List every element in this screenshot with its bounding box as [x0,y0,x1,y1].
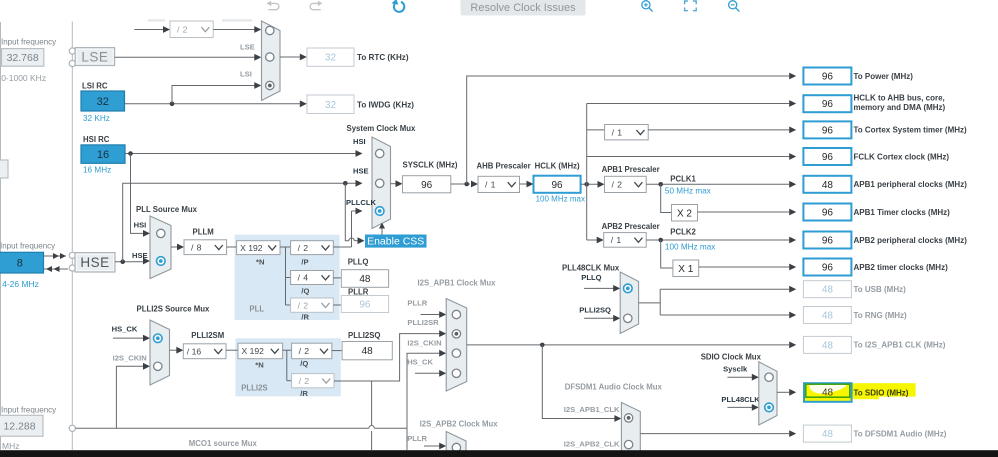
svg-text:MCO1 source Mux: MCO1 source Mux [189,439,258,448]
svg-text:HSE: HSE [80,255,109,270]
PLL shaded region [235,235,340,320]
svg-text:96: 96 [421,180,433,191]
port circle I2S_CKIN [69,425,75,431]
svg-text:/P: /P [301,258,308,267]
wire LSI branch to RTC mux [172,86,255,104]
svg-text:PLLI2S Source Mux: PLLI2S Source Mux [137,305,210,314]
output box APB1 peripheral clocks (MHz) = 48 [803,176,851,193]
svg-text:memory and DMA (MHz): memory and DMA (MHz) [854,103,946,112]
svg-text:To RNG (MHz): To RNG (MHz) [854,311,908,320]
toolbar undo icon [268,3,279,9]
PLL Source Mux radio HSE selected [157,257,166,266]
toolbar Resolve Clock Issues button [461,0,586,16]
wire MCO1 feed down [371,381,373,426]
PLLI2SQ value box 48 [342,342,392,360]
wire DFSDM1 mux output [640,433,789,435]
svg-text:16: 16 [97,149,109,161]
System Clock Mux radio HSE [376,179,384,187]
svg-text:HSE: HSE [353,167,369,176]
svg-text:To RTC (KHz): To RTC (KHz) [357,53,409,62]
svg-text:16 MHz: 16 MHz [83,165,111,174]
svg-text:I2S_APB1 Clock Mux: I2S_APB1 Clock Mux [418,279,497,288]
toolbar zoom-in icon [642,1,650,9]
wire HSE branch up to System Clock Mux [123,183,356,261]
svg-text:*N: *N [256,258,264,267]
svg-text:LSI RC: LSI RC [82,82,108,91]
wire PLLI2SM to PLLI2SN [226,349,238,351]
output box To I2S_APB1 CLK (MHz) = 48 [803,336,851,353]
port circles at HSE [69,252,75,258]
System Clock Mux radio PLLCLK selected [375,207,384,216]
HSE bidirectional arrows [44,255,67,257]
To SDIO yellow highlight band [852,383,916,396]
wire /2 to RTC mux [213,29,255,31]
svg-text:48: 48 [362,346,374,357]
faint cut-off label HSE_RTC [148,19,165,21]
wire PLLR stub [421,314,440,316]
svg-text:/ 2: / 2 [298,300,309,310]
svg-text:/ 2: / 2 [299,346,310,356]
svg-text:PLLI2SQ: PLLI2SQ [348,331,381,340]
toolbar refresh icon [394,2,404,12]
svg-text:4-26 MHz: 4-26 MHz [2,279,39,289]
wire PCLK2 branch to X1 [661,240,673,268]
wire AHB to HCLK box [520,183,528,185]
panel divider line [71,22,73,451]
bottom taskbar [0,450,998,457]
wire PCLK1 branch to X2 [661,184,672,212]
svg-text:/Q: /Q [301,287,309,296]
svg-text:HCLK (MHz): HCLK (MHz) [535,162,580,171]
svg-text:I2S_APB2 Clock Mux: I2S_APB2 Clock Mux [420,419,499,428]
svg-text:48: 48 [822,180,834,191]
svg-text:/ 2: / 2 [299,376,310,386]
PLLI2S internal branch [283,349,287,351]
wire HS_CK stub 2 [415,372,440,374]
svg-text:LSI: LSI [240,69,252,78]
svg-text:FCLK Cortex clock (MHz): FCLK Cortex clock (MHz) [854,152,950,161]
svg-text:32.768: 32.768 [7,52,39,64]
svg-text:I2S_CKIN: I2S_CKIN [113,354,147,363]
wire SDIO mux output [777,391,789,393]
output box APB1 Timer clocks (MHz) = 96 [803,204,851,221]
wire SYSCLK up to Power output [467,76,790,184]
SDIO mux radio PLL48CLK selected [765,403,774,412]
svg-text:96: 96 [822,125,834,136]
svg-text:PLLI2SQ: PLLI2SQ [579,306,611,315]
svg-text:System Clock Mux: System Clock Mux [347,124,417,133]
PLLI2SR dropdown /2 disabled [292,374,334,388]
input frequency box 12.288 [0,415,43,436]
svg-text:X 192: X 192 [240,243,263,253]
svg-text:8: 8 [17,258,23,270]
svg-text:50 MHz max: 50 MHz max [665,187,711,196]
wire into /2 RTC divider [134,29,164,31]
svg-text:To Cortex System timer (MHz): To Cortex System timer (MHz) [854,126,968,135]
svg-text:48: 48 [822,340,834,351]
output box To RNG (MHz) = 48 [803,307,851,324]
svg-text:Enable CSS: Enable CSS [367,236,424,248]
wire Cortex divider to output [648,129,789,131]
svg-text:PCLK2: PCLK2 [670,228,696,237]
svg-text:LSE: LSE [81,49,108,64]
svg-text:APB2 timer clocks (MHz): APB2 timer clocks (MHz) [854,263,949,272]
svg-text:96: 96 [822,236,834,247]
PLLR value box 96 disabled [341,296,388,313]
wire PLLR to box [333,304,341,306]
svg-text:PLL: PLL [249,305,264,314]
svg-text:LSE: LSE [240,42,255,51]
DFSDM1 mux radio I2S_APB1_CLK selected [624,414,632,422]
wire PLLI2SQ to box [332,350,342,352]
DFSDM1 mux radio I2S_APB2_CLK [624,440,632,448]
PLL Source Mux shape [150,216,171,279]
wire PLLQ stub [584,287,614,289]
svg-text:Resolve Clock Issues: Resolve Clock Issues [470,2,576,14]
svg-text:PLL48CLK: PLL48CLK [721,395,760,404]
output box To USB (MHz) = 48 [803,281,851,298]
svg-text:48: 48 [822,429,834,440]
svg-text:/ 1: / 1 [612,127,623,137]
X2 multiplier box [672,205,698,222]
AHB Prescaler dropdown /1 [478,176,520,192]
svg-text:PLLR: PLLR [407,434,427,443]
wire System Clock Mux to SYSCLK box [391,183,397,185]
wire I2S_APB1 down to DFSDM1 mux [542,345,615,419]
svg-text:HS_CK: HS_CK [407,358,433,367]
toolbar redo icon [310,3,321,9]
left panel edge line [0,22,2,450]
svg-text:HCLK to AHB bus, core,: HCLK to AHB bus, core, [854,94,945,103]
I2S_APB1 Clock Mux shape [446,299,467,392]
wire HSE output [115,261,144,263]
svg-text:HSI: HSI [353,137,366,146]
svg-text:/R: /R [301,313,309,322]
svg-text:32: 32 [97,96,109,108]
PLL48CLK Mux radio PLLI2SQ [624,314,632,322]
HCLK distribution vertical [586,104,588,241]
svg-text:/ 2: / 2 [298,243,309,253]
svg-text:To Power (MHz): To Power (MHz) [854,72,914,81]
svg-text:To SDIO (MHz): To SDIO (MHz) [854,388,909,397]
wire HS_CK stub [113,337,143,339]
svg-text:PLLI2S: PLLI2S [241,384,267,393]
wire to APB2 prescaler [587,239,598,241]
svg-text:*N: *N [255,361,263,370]
svg-text:32 KHz: 32 KHz [83,114,110,123]
Enable CSS button [365,235,427,248]
port circles at LSE [69,48,75,54]
svg-text:PLLM: PLLM [193,228,214,237]
System Clock Mux radio HSI [376,149,384,157]
PLLI2SN dropdown X192 [238,343,283,359]
I2S_APB1 mux radio PLLR [452,310,460,318]
wire HSI branch down to PLL mux [131,154,144,234]
svg-text:I2S_CKIN: I2S_CKIN [407,338,441,347]
svg-text:32: 32 [325,100,337,111]
input frequency box 32.768 [2,49,44,67]
PLLQ value box 48 [341,270,388,288]
svg-text:X 192: X 192 [242,346,265,356]
HSI RC box 16 [81,145,125,163]
PLLI2S mux radio I2S_CKIN [154,362,162,370]
output box To Cortex System timer (MHz) = 96 [803,121,851,138]
svg-text:48: 48 [822,388,834,399]
svg-text:APB1 peripheral clocks (MHz): APB1 peripheral clocks (MHz) [854,180,968,189]
RTC mux radio LSI selected [266,81,274,89]
svg-text:PLLCLK: PLLCLK [346,198,376,207]
RTC clock mux [262,21,281,101]
svg-text:96: 96 [822,263,834,274]
wire PLLCLK into mux [352,210,356,212]
wire PLL mux to PLLM [171,246,178,248]
svg-text:PLL48CLK Mux: PLL48CLK Mux [562,264,620,273]
wire to FCLK output [587,156,790,158]
wire HSE to Enable CSS (with hop) [345,183,349,240]
wire PLLI2SQ stub [584,317,614,319]
svg-text:PLLR: PLLR [407,299,427,308]
svg-text:32: 32 [325,53,337,64]
output box To Power (MHz) = 96 [803,68,851,85]
wire I2S_CKIN into PLLI2S mux [116,366,143,428]
svg-text:X 2: X 2 [677,208,692,219]
wire PLLQ to box [333,277,341,279]
left edge box fragment [0,160,8,178]
svg-text:PCLK1: PCLK1 [670,175,696,184]
APB2 Prescaler dropdown /1 [604,233,647,248]
wire Enable CSS to mux [381,227,383,235]
svg-text:To IWDG (KHz): To IWDG (KHz) [357,101,414,110]
output box To DFSDM1 Audio (MHz) = 48 [803,425,851,442]
svg-text:APB2 peripheral clocks (MHz): APB2 peripheral clocks (MHz) [854,236,968,245]
PLL48CLK Mux shape [620,272,638,334]
svg-text:APB1 Prescaler: APB1 Prescaler [602,165,660,174]
output box APB2 peripheral clocks (MHz) = 96 [803,232,851,249]
svg-text:Input frequency: Input frequency [1,406,56,415]
svg-text:PLL Source Mux: PLL Source Mux [136,205,198,214]
wire to HCLK AHB output [587,103,790,105]
PLLP dropdown /2 [291,241,334,255]
wire PLLM to PLLN [227,246,237,248]
To IWDG value box [307,95,354,114]
I2S_APB1 mux radio PLLI2SR selected [452,330,460,338]
wire I2S_CKIN riser [407,353,440,428]
wire PLLR stub (APB2) [424,445,440,447]
svg-text:PLLQ: PLLQ [348,258,369,267]
svg-text:Input frequency: Input frequency [1,38,56,47]
svg-text:PLLQ: PLLQ [581,273,601,282]
svg-text:HSE: HSE [132,251,148,260]
svg-text:/ 8: / 8 [191,242,202,252]
output box HCLK to AHB bus, core, = 96 [803,95,851,112]
svg-text:Sysclk: Sysclk [723,365,748,374]
I2S_APB2 mux radio PLLR (partial) [452,443,460,451]
DFSDM1 Audio Clock Mux shape (cut) [621,403,640,457]
PLLI2SM dropdown /16 [183,344,226,359]
PLL Source Mux radio HSI [157,229,165,237]
svg-text:/ 4: / 4 [298,273,309,283]
wire PLL48 mux output split [639,302,661,304]
wire X2 to APB1 timer output [698,211,790,213]
RTC mux radio LSE [266,53,274,61]
toolbar fit-to-screen icon [685,1,697,11]
Cortex timer dropdown /1 [605,125,649,140]
SDIO Clock Mux shape [759,362,777,425]
svg-text:/ 16: / 16 [187,346,202,356]
I2S_CKIN distribution wire [75,427,368,429]
svg-text:SYSCLK (MHz): SYSCLK (MHz) [403,161,458,170]
PLL internal branch [280,246,286,248]
svg-text:/ 1: / 1 [485,180,496,190]
wire PLL48CLK stub [727,406,752,408]
svg-text:X 1: X 1 [678,264,693,275]
svg-text:To DFSDM1 Audio (MHz): To DFSDM1 Audio (MHz) [854,429,947,438]
APB1 Prescaler dropdown /2 [605,176,647,192]
X1 multiplier box [673,260,699,277]
svg-text:96: 96 [822,72,834,83]
svg-text:HS_CK: HS_CK [112,325,138,334]
To SDIO output box 48 highlighted [804,383,852,402]
wire PLLI2S mux to PLLI2SM [170,349,177,351]
wire I2S_APB2_CLK stub [616,444,618,446]
wire HCLK output [581,183,598,185]
svg-text:100 MHz max: 100 MHz max [665,243,716,252]
svg-text:APB2 Prescaler: APB2 Prescaler [602,222,660,231]
svg-text:DFSDM1 Audio Clock Mux: DFSDM1 Audio Clock Mux [565,382,663,391]
wire X1 to APB2 timer output [699,266,790,268]
RTC mux radio HSE_RTC [266,26,274,34]
LSE oscillator box [75,48,114,66]
svg-text:I2S_APB1_CLK: I2S_APB1_CLK [564,405,620,414]
wire PLLI2SR to I2S APB1 mux [334,334,440,381]
wire PLLP to PLLCLK riser [333,246,351,248]
wire to Cortex divider [587,129,605,131]
I2S_APB1 mux radio HS_CK [452,369,460,377]
LSI RC box 32 [81,91,125,111]
svg-text:96: 96 [822,152,834,163]
svg-text:/ 2: / 2 [177,24,188,34]
PLLI2S mux radio HS_CK selected [154,334,163,343]
svg-text:/ 2: / 2 [612,180,623,190]
PLLI2S Source Mux shape [150,320,170,385]
PLL48CLK Mux radio PLLQ selected [624,284,633,293]
svg-text:96: 96 [822,208,834,219]
output box APB2 timer clocks (MHz) = 96 [803,259,851,276]
output box FCLK Cortex clock (MHz) = 96 [803,148,851,165]
toolbar zoom-out icon [729,1,737,9]
wire RTC mux to RTC box [280,56,300,58]
svg-text:PLLI2SM: PLLI2SM [191,331,224,340]
PLLQ dropdown /4 [291,271,334,285]
PLLI2S shaded region [235,338,340,396]
svg-text:48: 48 [359,274,371,285]
svg-text:96: 96 [551,180,563,191]
I2S_APB2 Clock Mux shape (cut) [446,432,466,457]
svg-text:/ 1: / 1 [611,235,622,245]
SYSCLK value box 96 [403,176,451,193]
PLLI2SQ dropdown /2 [292,343,332,359]
input frequency box 8 (HSE source) [0,252,44,273]
svg-text:Input frequency: Input frequency [0,241,55,250]
PLLR dropdown /2 disabled [291,298,334,312]
svg-text:PLLI2SR: PLLI2SR [407,318,439,327]
svg-text:To USB (MHz): To USB (MHz) [854,285,907,294]
To RTC value box [307,48,354,66]
wire Sysclk stub [727,376,752,378]
SDIO mux radio Sysclk [765,373,773,381]
wire I2S_APB1 mux output [467,344,790,346]
HCLK value box 96 [534,176,581,193]
wire HSI RC to System Clock Mux [125,153,356,155]
svg-text:96: 96 [359,300,371,311]
svg-text:HSI: HSI [134,220,147,229]
svg-text:/R: /R [300,389,308,398]
wire PCLK1 to APB1 peripheral output [646,183,789,185]
wire PCLK2 to APB2 peripheral output [646,239,789,241]
svg-text:0-1000 KHz: 0-1000 KHz [1,73,46,83]
I2S_APB1 mux radio I2S_CKIN [452,349,460,357]
HSE RTC divider dropdown /2 [170,21,213,38]
svg-text:100 MHz max: 100 MHz max [536,195,585,204]
svg-text:48: 48 [822,311,834,322]
svg-text:HSI RC: HSI RC [83,135,110,144]
wire SYSCLK to AHB prescaler [451,183,470,185]
svg-text:MHz: MHz [2,441,19,451]
svg-text:To I2S_APB1 CLK (MHz): To I2S_APB1 CLK (MHz) [854,341,946,350]
svg-text:SDIO Clock Mux: SDIO Clock Mux [701,353,762,362]
svg-text:48: 48 [822,285,834,296]
PLLM dropdown /8 [184,240,227,255]
wire LSE to RTC mux [115,56,255,58]
wire LSI RC output [125,103,300,105]
svg-text:I2S_APB2_CLK: I2S_APB2_CLK [564,440,620,449]
svg-text:/Q: /Q [300,359,308,368]
svg-text:12.288: 12.288 [3,421,35,433]
PLLN dropdown X192 [237,241,280,255]
HSE oscillator box [75,253,115,272]
svg-text:APB1 Timer clocks (MHz): APB1 Timer clocks (MHz) [854,208,951,217]
svg-text:AHB Prescaler: AHB Prescaler [477,162,531,171]
svg-text:96: 96 [822,99,834,110]
System Clock Mux shape [372,137,391,229]
